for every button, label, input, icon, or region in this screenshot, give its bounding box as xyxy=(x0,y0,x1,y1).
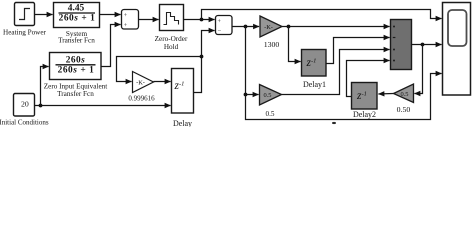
junction on ZOH output xyxy=(200,18,204,22)
svg-text:Hold: Hold xyxy=(164,43,179,51)
wire constant 20 to Delay x0 input xyxy=(35,105,171,107)
wire 1300 branch down to Delay1 input xyxy=(289,27,301,62)
gain block 1300 xyxy=(260,16,282,49)
wire Sum2 branch to Scope input 3 along bottom xyxy=(246,74,442,120)
wire Mux output to Scope input 2 xyxy=(412,44,442,46)
step source Heating Power xyxy=(3,3,47,37)
gain block 0.999616 xyxy=(128,72,155,103)
gain block 0.5 xyxy=(260,85,282,119)
wire Sum2 branch down to gain 0.5 xyxy=(246,27,259,95)
svg-text:Transfer Fcn: Transfer Fcn xyxy=(57,90,94,98)
wire Mux branch down to gain 0.50 input xyxy=(414,45,422,94)
svg-text:0.5: 0.5 xyxy=(264,92,272,99)
svg-text:0.5: 0.5 xyxy=(266,110,275,118)
mux block xyxy=(391,20,412,70)
svg-text:0.999616: 0.999616 xyxy=(128,94,155,102)
sum block Sum1 xyxy=(122,10,139,30)
junction at gain 0.5 input xyxy=(244,93,248,97)
wire Sum1 to Zero-Order Hold xyxy=(139,19,159,21)
svg-text:Delay1: Delay1 xyxy=(303,80,326,89)
wire feedback to gain 0.999616 input xyxy=(117,57,202,82)
wire Zero-Order Hold to Sum2 xyxy=(184,19,215,21)
svg-text:0.5: 0.5 xyxy=(401,91,409,98)
sum block Sum2 xyxy=(216,16,233,35)
junction on constant output xyxy=(39,104,43,108)
wire gain 0.999616 to Delay u input xyxy=(154,81,171,83)
svg-text:260s: 260s xyxy=(66,55,86,65)
svg-text:−: − xyxy=(218,27,222,34)
svg-text:Heating Power: Heating Power xyxy=(3,28,47,36)
svg-text:Transfer Fcn: Transfer Fcn xyxy=(58,37,95,45)
delay block Delay1 xyxy=(302,50,327,90)
junction after 1300 xyxy=(287,25,291,29)
svg-text:Delay2: Delay2 xyxy=(353,110,376,119)
wire ZOH output branch to Scope input 1 xyxy=(202,10,442,20)
svg-text:1300: 1300 xyxy=(264,40,280,49)
gain block 0.50 left pointing xyxy=(394,84,414,114)
svg-text:260s + 1: 260s + 1 xyxy=(59,13,96,23)
junction on feedback xyxy=(200,55,204,59)
wire ZIE Transfer Fcn output to Sum1 lower input xyxy=(101,25,121,67)
transfer function block System Transfer Fcn xyxy=(54,3,100,45)
wire constant branch up to ZIE Transfer Fcn input xyxy=(41,67,49,106)
svg-text:0.50: 0.50 xyxy=(397,105,411,114)
wire System Transfer Fcn to Sum1 xyxy=(100,14,121,16)
wire feedback branch up to Sum2 minus input xyxy=(202,31,215,57)
svg-text:Delay: Delay xyxy=(173,119,192,127)
zero-order hold block xyxy=(155,5,188,51)
scope block xyxy=(443,3,471,96)
delay block Delay2 xyxy=(352,83,378,120)
wire Delay1 output to Mux input 2 xyxy=(326,38,390,64)
svg-text:260s + 1: 260s + 1 xyxy=(58,65,95,75)
delay block Delay xyxy=(172,69,194,129)
svg-text:+: + xyxy=(124,23,128,29)
zero input equivalent transfer fcn block xyxy=(44,53,107,99)
svg-text:Initial Conditions: Initial Conditions xyxy=(0,118,49,126)
junction on Sum2 output xyxy=(244,25,248,29)
wire gain 0.50 output to Delay2 input xyxy=(378,93,393,96)
wire Delay2 output to Mux input 4 xyxy=(347,61,390,97)
wire Sum2 to gain 1300 xyxy=(232,26,259,28)
wire 1300 output to Mux input 1 xyxy=(282,26,390,28)
small mark under bottom wire xyxy=(332,122,336,124)
wire step to System Transfer Fcn xyxy=(35,14,53,16)
constant block 20 Initial Conditions xyxy=(0,94,49,127)
svg-text:+: + xyxy=(124,13,128,19)
svg-text:20: 20 xyxy=(21,100,29,109)
svg-text:-K-: -K- xyxy=(136,79,145,86)
junction on Mux output xyxy=(421,43,425,47)
svg-text:4.45: 4.45 xyxy=(68,4,85,14)
wire gain 0.5 output to Mux input 3 xyxy=(282,50,390,95)
wire Delay output feedback riser xyxy=(194,57,202,93)
svg-text:-K-: -K- xyxy=(264,24,273,31)
